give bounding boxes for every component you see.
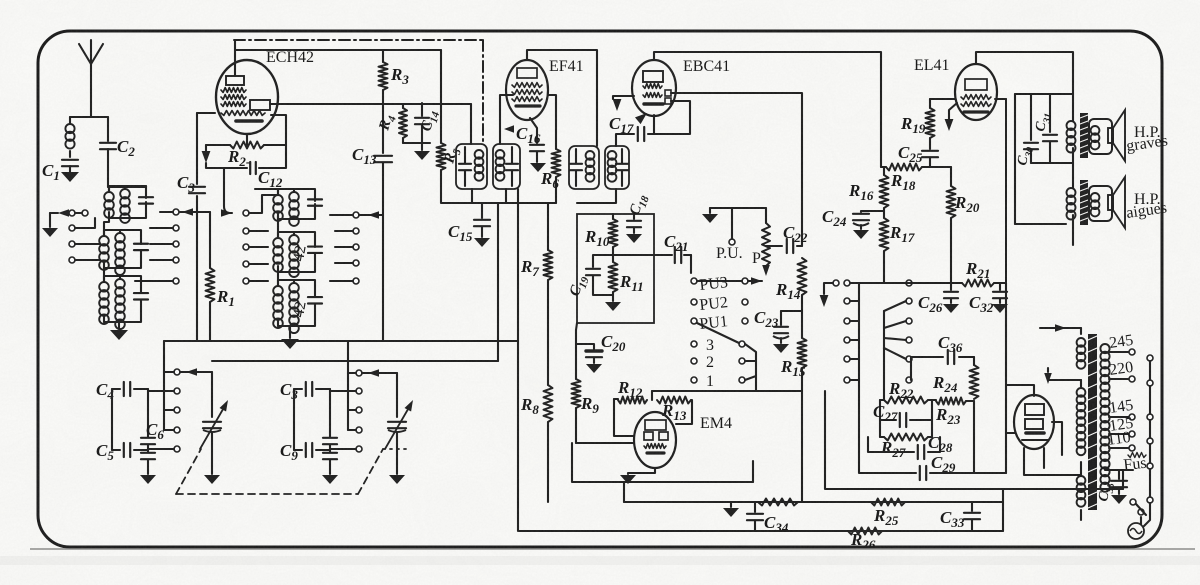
capacitor C12 [250,162,283,190]
arrow into bank1 left [50,209,69,217]
tone box 1 [880,400,932,437]
osc grid hook wire [206,163,230,213]
tube EL41 envelope [955,64,997,120]
IF1 wires [441,189,556,203]
arrow PU wiper [748,277,762,285]
capacitor C2 [100,137,135,187]
capacitor C19 [567,255,613,299]
wire top bus to R3 [382,50,384,62]
capacitor C20 [576,332,626,363]
IF2 primary coil [586,151,595,182]
arrow tuning left [180,368,212,376]
wire C3 C9 left [293,389,295,450]
ground on bus [723,502,739,517]
wires bank2 [255,189,290,338]
paper noise overlay [0,0,1,1]
resistor R2 [202,142,286,164]
resistor R9 [572,330,600,443]
ECH42 internals [221,76,270,121]
capacitor C17 [609,114,654,141]
EM4 grid wire [576,442,634,444]
capacitor C5 [96,441,148,463]
capacitor C31 [1033,94,1057,163]
tap 110 [1106,429,1135,451]
arrow junction right of bank2 [359,211,383,219]
resistor R7 [520,203,553,280]
arrow into bank2 left [221,209,232,217]
ground below C1 [61,172,79,182]
scan page edge line at bottom [30,548,1195,550]
rectifier internals [1022,404,1048,440]
output transformer T1 + speaker HP graves [1067,94,1126,163]
capacitor C3 tuning [280,380,330,402]
primary coil top [1077,328,1086,369]
wire tone bus [859,282,1006,284]
coil bank 2 unit 2 [273,232,322,277]
resistor R27 [880,434,932,461]
switch position 2 [691,354,745,371]
tube EBC41 envelope [632,60,676,116]
switch position 1 [691,373,745,390]
capacitor C18 [627,192,652,233]
switch position 3 [691,337,745,354]
IF2 secondary coil [608,151,617,182]
capacitor C15 [448,203,490,244]
resistor R6 [540,149,561,203]
bank1 switch contacts right [135,209,179,284]
resistor R21 [962,259,994,287]
EL41 internals [961,79,991,112]
capacitor C33 [940,502,980,531]
EBC41 internals [643,71,671,104]
wire antenna to C1/C2 [70,117,108,141]
ground bank1 left [42,213,58,237]
capacitor C26 [918,283,958,315]
EL41 top wire [976,52,1073,94]
bus resistor [758,499,798,506]
ground below C23 [773,344,789,353]
ground below C26 [943,304,959,313]
capacitor C29 [859,400,974,480]
IF1 secondary box [493,144,520,189]
wire bank2 to tuning [347,341,349,430]
potentiometer P [752,208,770,276]
trimmer C6 [141,389,164,474]
wire EM4 plate [652,390,802,392]
bank2 switch contacts right [330,212,359,284]
label ECH42 [266,49,314,66]
tone switch column A [833,280,859,383]
coil bank 1 unit 2 (L3) [99,230,148,275]
switch arm [697,323,739,343]
label HP aigues [1125,191,1168,222]
trimmer C10 [323,389,337,474]
wire mid speakers [1031,162,1073,164]
bank2 switch contacts left [243,195,278,284]
variable capacitor VC2 [385,373,413,474]
ground below C14 [414,143,430,160]
rectifier wires [1006,385,1081,475]
wire EM4 area bottom [572,443,753,502]
resistor R19 [900,99,955,138]
tap 245 [1108,332,1135,355]
resistor R5 [437,50,464,190]
long vertical from IF1 [517,189,519,531]
resistor R8 [520,280,553,502]
bank1 switch contacts left [69,210,100,263]
tube EF41 envelope [506,60,548,120]
capacitor C28 [868,433,953,459]
fuse Fus [1123,453,1152,474]
resistor R4 [376,104,407,143]
switch PU1 [691,313,748,333]
box around R4 C14 [403,142,430,144]
ground below VC2 [389,475,405,484]
wire B+ bus [624,489,1003,502]
EF41 internals [512,68,542,106]
EF41 grid ground arrow [500,95,514,144]
capacitor C24 [822,207,884,229]
capacitor C25 [898,138,938,167]
long AVC bus [212,203,498,361]
EL41 anode wire [995,98,1006,100]
label EM4 [700,415,732,432]
capacitor C30 [1015,94,1038,167]
switch PU3 [691,274,748,294]
terminal column [1147,355,1153,503]
resistor R20 [947,167,980,283]
resistor R17 [880,218,915,283]
tap 220 [1108,359,1135,382]
ECH42 anode wire to IF1 [270,104,471,144]
EM4 box [614,391,692,436]
EF41 top wire [527,50,597,146]
tube EM4 envelope [634,412,676,468]
IF2 primary cap [570,149,582,186]
IF2 primary box [569,146,599,189]
ECH42 top wire [235,40,441,76]
wire detector column [576,323,577,330]
ground below R11 [605,302,621,311]
wire bank1 to tuning [163,341,165,430]
wire tuning bus [164,340,518,342]
resistor R26 [848,528,882,553]
capacitor C16 [516,118,544,162]
capacitor C3 osc [0,0,1,1]
coil bank 1 unit 1 (L2) [104,186,153,223]
label HP graves [1125,124,1169,155]
coil bank 2 unit 3 [273,280,322,333]
bank2 rotated coil label [290,244,310,319]
wire ground bus [519,502,1003,531]
wire bus to R9 [0,0,1,1]
coil bank 1 unit 3 (L4) [99,276,148,329]
arrow primary top [1040,324,1081,332]
capacitor C34 [747,502,789,535]
resistor R22 [880,379,932,404]
ground below C10 [322,475,338,484]
resistor R14 [775,258,807,302]
switch PU2 [691,294,748,314]
resistor R23 [932,398,974,428]
detector box [577,214,654,323]
capacitor C14 [415,103,442,143]
capacitor C9 [280,441,330,463]
ground below C18 [626,234,642,243]
wire C4 C5 left [111,389,113,450]
EF41 screen wire [548,95,556,149]
primary coil bottom [1077,462,1086,520]
arrow tuning right [362,369,397,377]
variable capacitor VC1 [200,372,228,474]
resistor R16 [848,167,889,218]
EM4 internals [644,420,668,453]
primary coil mid [1077,380,1086,455]
tone switch ground [820,283,833,307]
arrow at C17 [635,113,647,124]
ground PU [702,214,718,223]
ECH42 grid wire to C3 [197,112,215,114]
resistor R11 [609,262,644,301]
IF1 secondary cap [506,147,518,186]
resistor R25 [871,499,905,529]
scan gray band below frame [0,556,1200,565]
capacitor C23 [754,308,789,343]
EBC41 diode box [648,101,690,134]
secondary winding [1100,344,1109,492]
PU box top [691,208,766,273]
tone switch column B [884,280,912,400]
resistor R12 [614,378,647,404]
ground bank2 [281,339,299,349]
wire C35 [1105,469,1133,471]
capacitor C4 [96,380,148,402]
wire to output [1006,94,1073,473]
tube ECH42 envelope [216,60,278,134]
tap 145 [1108,397,1135,420]
IF1 primary box [456,144,487,189]
resistor R10 [584,214,618,262]
tube rectifier envelope [1014,395,1054,449]
gang dashed link [176,449,411,494]
arrow junction right of bank1 [180,208,210,216]
antenna coil L1 [65,124,74,157]
resistor R1 [206,212,235,341]
label EF41 [549,58,584,75]
switch stem right [745,344,756,391]
resistor R13 [657,397,691,424]
arrow primary mid [1044,368,1081,384]
EL41 cathode ground arrow [945,103,957,131]
resistor R18 [881,164,951,194]
wires bank1 [104,186,146,329]
IF1 primary coil [475,150,484,181]
capacitor C27 [873,402,932,427]
antenna [79,40,103,117]
wire C3 column [196,113,198,341]
PU contact [716,208,743,262]
IF2 wires [577,134,632,203]
ground below VC1 [204,475,220,484]
capacitor C36 [911,333,974,380]
IF1 primary cap [459,147,471,186]
tuning left contacts [148,369,180,452]
capacitor C13 [352,145,392,341]
capacitor C1 [42,160,78,183]
ground below C24 [853,230,869,239]
triode box around R2 [271,115,286,145]
ground below C20 [586,364,602,373]
scan blotch texture [0,0,1,1]
label EBC41 [683,58,730,75]
IF2 secondary cap [616,149,628,186]
wire right box bottom [802,391,1123,489]
ground below C6 [140,475,156,484]
capacitor C22 [766,223,808,253]
EBC41 top wire long [654,52,881,167]
capacitor C35 [1096,470,1127,503]
tuning right contacts [330,370,362,452]
resistor R15 [780,295,807,502]
EBC41 anode wire long [671,93,802,246]
ground below C15 [474,238,490,247]
ground below C32 [992,304,1008,313]
dash-dot AVC line [234,40,483,142]
tap 125 [1108,415,1135,437]
output transformer T2 + speaker HP aigues [1015,163,1125,245]
ground bank1 [110,330,128,340]
resistor R24 [932,357,979,399]
tone network outer wires [859,283,1006,473]
label R2 [227,147,250,169]
capacitor C3 (osc padder) [177,173,205,195]
capacitor C21 [654,232,691,263]
coil bank 2 unit 1 [273,189,322,226]
resistor R3 [379,62,410,153]
wire C23 junction [781,310,802,312]
capacitor C32 [969,283,1007,315]
power transformer core [1088,334,1097,510]
ground below C16 [530,163,546,172]
wire C12 to bank2 [224,134,286,168]
ground below C35 [1111,495,1127,504]
mains switch [1130,499,1146,515]
IF2 secondary box [605,146,629,189]
AC source [1128,503,1150,539]
wire mid junction [613,254,654,256]
EM4 ground [620,468,655,484]
EBC41 grid ground arrow [613,96,634,111]
IF1 secondary coil [496,150,505,181]
label EL41 [914,57,950,74]
